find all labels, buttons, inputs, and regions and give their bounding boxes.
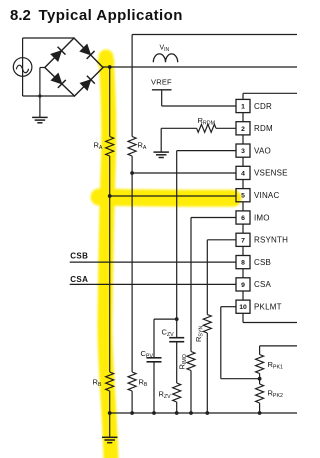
svg-text:CSB: CSB [254, 258, 271, 267]
svg-text:PKLMT: PKLMT [254, 303, 282, 312]
svg-text:2: 2 [241, 126, 245, 133]
svg-text:8: 8 [241, 260, 245, 267]
svg-text:VAO: VAO [254, 146, 271, 155]
svg-text:RSYNTH: RSYNTH [254, 236, 288, 245]
svg-text:IMO: IMO [254, 213, 270, 222]
svg-text:VINAC: VINAC [254, 191, 279, 200]
svg-text:RDM: RDM [254, 124, 273, 133]
svg-text:Typical Application: Typical Application [39, 7, 183, 24]
svg-text:6: 6 [241, 215, 245, 222]
svg-text:9: 9 [241, 282, 245, 289]
svg-text:10: 10 [239, 304, 247, 311]
svg-text:4: 4 [241, 170, 245, 177]
svg-text:CSB: CSB [70, 252, 88, 261]
svg-text:7: 7 [241, 237, 245, 244]
svg-text:CSA: CSA [254, 280, 272, 289]
svg-text:5: 5 [241, 193, 245, 200]
svg-text:VSENSE: VSENSE [254, 169, 288, 178]
svg-text:3: 3 [241, 148, 245, 155]
svg-text:1: 1 [241, 104, 245, 111]
svg-text:8.2: 8.2 [10, 7, 31, 24]
svg-text:VREF: VREF [151, 78, 172, 87]
svg-text:CDR: CDR [254, 102, 272, 111]
svg-text:CSA: CSA [70, 275, 88, 284]
